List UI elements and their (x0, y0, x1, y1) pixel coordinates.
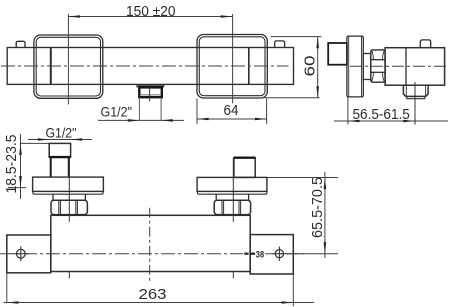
side view: bottom outlet inner lines (405, 85, 407, 96)
side view: wall flange inner left line (348, 37, 350, 97)
plan view: inlet 2 pipe (234, 158, 255, 178)
svg-text:65.5-70.5: 65.5-70.5 (310, 177, 326, 238)
dim 56.5-61.5 arrows (348, 120, 360, 123)
front view: left bracket divider (50, 48, 52, 85)
front view: left top tab (16, 41, 25, 47)
plan view: right bracket (250, 235, 293, 274)
dim 65.5-70.5 line (324, 172, 326, 258)
plan view: inlet 1 flange (33, 177, 104, 191)
plan view: inlet 1 neck (53, 194, 85, 200)
plan view: bar body (51, 215, 250, 271)
plan view: right screw hole (275, 250, 283, 258)
front view: right bracket divider (248, 48, 250, 85)
dim 60 extension bottom (264, 97, 320, 99)
front view: handle 1 outer (34, 35, 103, 98)
side view: joint between flange and nut (363, 54, 371, 80)
plan view: inlet 2 flange (197, 177, 267, 191)
plan 38 leader dashes (244, 253, 248, 255)
plan view: left screw hole (16, 249, 25, 258)
side view: bottom outlet lip (407, 96, 425, 98)
outlet G1/2 dim line (98, 119, 184, 121)
plan view: left bracket (7, 235, 51, 273)
front view: handle 1 inner (36, 37, 100, 96)
dim 60 line (317, 37, 319, 98)
plan outlet centerline (149, 208, 151, 282)
plan view: inlet 1 lower pipe (51, 157, 69, 177)
plan inlet 1 centerline (68, 157, 70, 222)
front view: outlet flange (137, 85, 164, 87)
side view: hex nut facet line lower (371, 71, 385, 73)
svg-text:38: 38 (256, 249, 265, 260)
outlet extension lines (138, 97, 140, 120)
side view: hex nut (371, 50, 385, 82)
svg-text:263: 263 (139, 287, 167, 303)
plan G1/2 dim line (28, 139, 92, 141)
plan view horizontal centerline (0, 253, 243, 255)
front view: handle 2 inner (199, 37, 265, 96)
dim 263 extension left (6, 273, 8, 304)
dim 65.5-70.5 arrows (324, 178, 327, 190)
front view: handle 2 outer (197, 35, 267, 99)
plan view: inlet 2 hex nut (214, 200, 250, 214)
plan view: inlet 2 neck (216, 194, 248, 200)
plan G1/2 arrows (38, 138, 50, 141)
svg-text:64: 64 (224, 103, 239, 119)
dim 60 extension top (271, 36, 322, 38)
side view: hex nut chamfer arcs (372, 50, 385, 82)
side outlet centerline (414, 82, 416, 125)
svg-text:G1/2": G1/2" (46, 125, 77, 141)
dim 65.5-70.5 extension bottom (287, 253, 338, 255)
dim 150±20 line (68, 16, 232, 18)
front view: body bar (7, 48, 293, 85)
handle 2 vertical centerline (232, 14, 234, 103)
front view: right top tab (275, 41, 285, 48)
svg-text:18.5-23.5: 18.5-23.5 (4, 135, 20, 194)
dim 263 arrows (7, 301, 19, 304)
plan view: inlet 1 pipe shoulder thick line (49, 156, 70, 158)
front outlet centerline (149, 85, 151, 102)
dim 64 extensions (196, 99, 198, 125)
outlet G1/2 arrows (128, 119, 140, 122)
svg-text:56.5-61.5: 56.5-61.5 (353, 107, 410, 123)
dim 64 arrows (197, 118, 209, 121)
dim 64 line (197, 118, 267, 120)
side view: bottom outlet nut (403, 85, 428, 96)
plan view: inlet 2 nut facets (222, 201, 241, 214)
svg-text:150 ±20: 150 ±20 (126, 4, 176, 20)
svg-text:60: 60 (302, 56, 319, 77)
plan view: inlet 1 nut facets (59, 201, 78, 214)
dim 56.5-61.5 line (334, 120, 448, 122)
dim 18.5-23.5 line (20, 134, 22, 199)
side view: wall flange (347, 36, 363, 97)
dim 18.5-23.5 arrows (19, 143, 22, 155)
side view: hex nut facet line upper (371, 59, 385, 61)
dim 60 arrows (316, 37, 319, 49)
front view: outlet barrel inner edge (141, 94, 160, 96)
plan view: inlet 1 hex nut (51, 200, 87, 214)
side view: top tab (420, 40, 430, 48)
plan view: inlet 2 flange bottom band (197, 191, 267, 194)
dim 263 line (4, 302, 315, 304)
handle 1 vertical centerline (67, 14, 69, 105)
side view: body divider (405, 48, 407, 85)
dim 65.5-70.5 extension top (267, 177, 338, 179)
front view horizontal centerline (1, 65, 289, 67)
dim 18.5-23.5 extensions (21, 142, 50, 144)
plan view: inlet 1 flange bottom band (33, 191, 103, 194)
plan view: inlet 1 upper pipe (49, 143, 70, 157)
side view: wall flange inner right line (361, 37, 363, 97)
dim 263 extension right (292, 274, 294, 306)
side view horizontal centerline (350, 65, 447, 67)
side view: valve body (385, 48, 445, 85)
side view: wall pipe (328, 43, 347, 65)
dim 150 arrows (68, 15, 80, 18)
dim 56.5-61.5 extension left (347, 98, 349, 125)
svg-text:G1/2": G1/2" (101, 103, 133, 119)
plan inlet 2 centerline (232, 158, 234, 222)
front view: outlet barrel (139, 87, 162, 97)
